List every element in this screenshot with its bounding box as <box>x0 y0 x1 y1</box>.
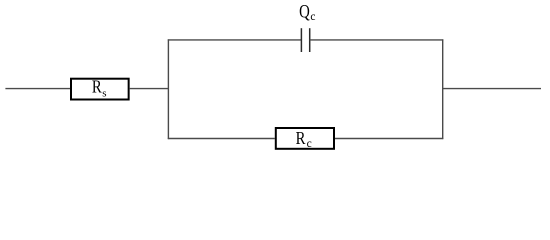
wire: R_s to left node <box>130 88 169 90</box>
svg-text:c: c <box>310 11 315 23</box>
svg-text:R: R <box>296 127 306 148</box>
svg-text:R: R <box>92 76 102 97</box>
label R_s <box>92 76 102 97</box>
wire: bottom branch right segment <box>335 138 443 140</box>
wire: top branch right segment <box>310 39 444 41</box>
svg-text:s: s <box>102 88 106 100</box>
wire: bottom branch left segment <box>168 138 275 140</box>
capacitor Q_c left plate <box>300 28 302 52</box>
wire: top branch left segment <box>168 39 302 41</box>
wire: right output lead <box>443 88 541 90</box>
resistor R_s <box>71 79 129 100</box>
wire: left vertical branch <box>167 39 169 139</box>
wire: right vertical branch <box>442 39 444 139</box>
label R_c <box>296 127 306 148</box>
resistor R_c <box>276 128 334 149</box>
svg-text:c: c <box>307 138 312 150</box>
wire: left input lead <box>5 88 70 90</box>
label Q_c <box>299 1 310 22</box>
svg-text:Q: Q <box>299 1 310 22</box>
capacitor Q_c right plate <box>309 28 311 52</box>
